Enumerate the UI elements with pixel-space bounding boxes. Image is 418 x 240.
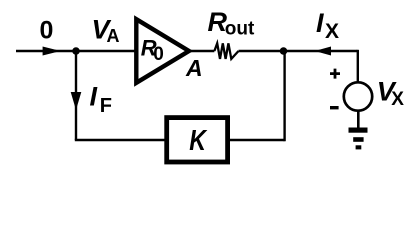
wire: input lead: [16, 50, 137, 52]
ground bar 3: [356, 145, 362, 149]
arrow I_X (leftward): [315, 47, 331, 56]
wire: bottom left horizontal: [75, 139, 168, 141]
node output junction dot: [280, 47, 288, 55]
block K box: [167, 118, 228, 162]
wire: feedback right vertical: [283, 51, 285, 141]
wire: resistor to source top: [239, 50, 358, 52]
source minus sign: [330, 106, 339, 109]
svg-text:F: F: [100, 95, 112, 117]
svg-text:A: A: [107, 26, 120, 46]
source VX circle: [344, 82, 372, 110]
svg-text:I: I: [316, 8, 324, 38]
ground bar 2: [353, 137, 363, 142]
svg-text:X: X: [391, 89, 404, 110]
svg-text:0: 0: [40, 17, 54, 45]
wire: amp output to resistor: [189, 50, 214, 52]
arrow input (rightward): [43, 47, 61, 56]
wire: source vertical drop: [357, 50, 359, 82]
ground stub: [357, 111, 360, 129]
svg-text:0: 0: [153, 44, 164, 65]
wire: bottom right horizontal: [227, 139, 285, 141]
svg-text:A: A: [185, 55, 203, 81]
source plus sign: [330, 69, 340, 79]
svg-text:out: out: [225, 19, 255, 40]
node VA junction dot: [72, 47, 80, 55]
wire: feedback left vertical: [75, 51, 77, 140]
svg-text:K: K: [189, 124, 208, 157]
resistor Rout zigzag: [214, 43, 238, 59]
arrow I_F (downward): [71, 92, 82, 110]
op-amp R0 triangle: [136, 19, 189, 83]
ground bar 1: [349, 128, 368, 133]
svg-text:X: X: [325, 20, 339, 43]
svg-text:I: I: [90, 82, 98, 112]
